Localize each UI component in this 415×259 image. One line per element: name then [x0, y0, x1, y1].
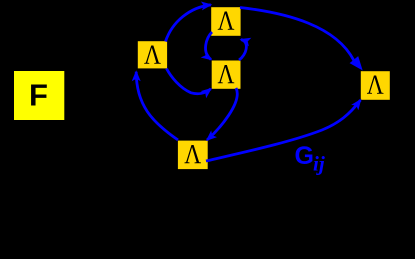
arrow L3 to L2 (right inner arc): [239, 40, 246, 61]
svg-text:G: G: [295, 142, 314, 170]
arrow L4 to L5 (long bottom arc, G_ij): [206, 100, 361, 161]
arrow L4 to L1 (left big arc): [136, 72, 178, 140]
arrow L1 to L3 (lower dip arc): [167, 69, 211, 94]
svg-text:F: F: [29, 78, 48, 113]
arrow L3 to L4: [207, 88, 237, 140]
svg-text:Λ: Λ: [218, 5, 235, 36]
svg-text:Λ: Λ: [144, 39, 161, 70]
box F: [14, 71, 64, 120]
arrow L1 to L2: [166, 5, 211, 42]
svg-text:Λ: Λ: [184, 138, 201, 169]
svg-text:ij: ij: [313, 152, 325, 176]
box L5 (right lambda): [361, 71, 390, 100]
box L2 (top lambda): [211, 7, 240, 36]
box L4 (bottom lambda): [178, 141, 208, 170]
arrow L2 to L3 (left inner arc): [206, 32, 212, 60]
svg-text:Λ: Λ: [367, 69, 384, 100]
svg-text:Λ: Λ: [218, 58, 235, 89]
box L3 (middle lambda): [212, 61, 241, 89]
box L1 (left lambda): [138, 41, 167, 68]
arrow L2 to L5 (big top arc): [240, 8, 354, 61]
